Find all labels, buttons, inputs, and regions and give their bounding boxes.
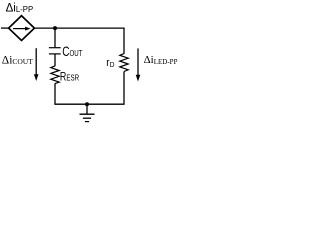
svg-text:ΔiCOUT: ΔiCOUT — [2, 55, 33, 67]
ground — [80, 104, 95, 121]
resistor RESR — [51, 66, 59, 84]
wire left input lead — [1, 27, 9, 29]
svg-text:COUT: COUT — [62, 43, 83, 59]
current arrow ΔiLED-PP — [136, 48, 141, 81]
node top junction — [53, 26, 57, 30]
wire right branch lower — [123, 72, 125, 105]
node bottom junction — [85, 102, 89, 106]
current arrow ΔiCOUT — [34, 48, 39, 81]
resistor rD — [120, 54, 128, 72]
svg-text:rD: rD — [106, 57, 114, 69]
wire top — [34, 27, 124, 29]
wire right branch upper — [123, 28, 125, 54]
capacitor COUT — [49, 48, 61, 54]
current source ΔiL-PP diamond — [9, 16, 35, 41]
svg-text:RESR: RESR — [60, 70, 80, 84]
svg-text:ΔiLED-PP: ΔiLED-PP — [144, 54, 178, 66]
wire left branch lower — [55, 83, 124, 104]
svg-text:ΔiL-PP: ΔiL-PP — [6, 3, 34, 15]
wire left branch upper — [54, 28, 56, 47]
wire cap to resistor — [54, 54, 56, 66]
